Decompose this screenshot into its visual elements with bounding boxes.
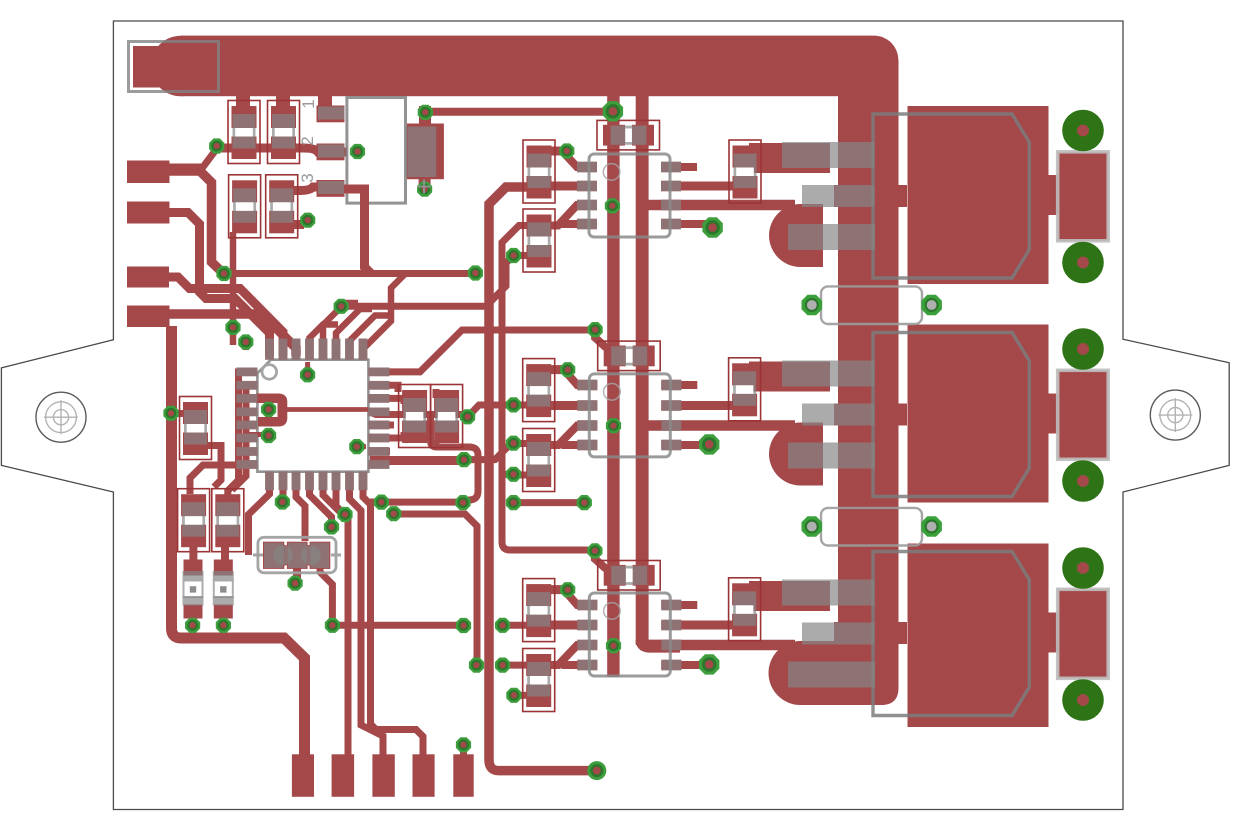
- wire pad LP3: [127, 267, 169, 288]
- relay K1 screw terminal hole bottom: [1062, 242, 1104, 284]
- wire coil feed relay2 pinA: [749, 362, 830, 392]
- capacitor C6: [431, 385, 463, 448]
- resistor R1a channel 1: [523, 140, 555, 203]
- wire via V26 to R3 bottom: [514, 252, 527, 259]
- LED D1: [183, 560, 204, 623]
- wire via V23 to via V38: [464, 444, 511, 460]
- wire vertical right bend to relay3 coil: [642, 640, 680, 646]
- wire net V25-V24: [381, 499, 463, 506]
- via V41: [577, 495, 592, 510]
- wire via V22 to via V37: [468, 405, 510, 417]
- via V-coil channel 1: [702, 217, 722, 237]
- regulator U2 pads 1-3: [317, 106, 345, 197]
- wire bar stub to C2: [276, 96, 290, 110]
- wire MCU pin R5 stub: [370, 421, 394, 428]
- via V11: [300, 367, 315, 382]
- relay K3 coil pin B overlay: [802, 623, 875, 645]
- regulator U2 tab pad: [404, 124, 444, 180]
- wire via V39 to R11 pad: [514, 472, 529, 479]
- via V17: [216, 618, 231, 633]
- power bus vertical band right: [838, 60, 899, 663]
- via V39: [506, 467, 521, 482]
- wire relay2 pinB stub: [834, 404, 907, 426]
- optocoupler U5: [589, 593, 670, 676]
- wire resonator pad3 to via V49: [320, 566, 332, 622]
- via V40: [506, 495, 521, 510]
- relay K3 terminal pad T: [1058, 589, 1109, 678]
- wire via V7 stub: [243, 336, 250, 350]
- capacitor C5: [399, 385, 431, 448]
- wire coil stadium relay1: [769, 204, 823, 267]
- wire MCU pin R2 to cap C5: [370, 385, 398, 392]
- wire LP1 to via V8: [168, 171, 224, 274]
- wire MCU pin B3 to resonator: [296, 470, 305, 541]
- via V-cap channel 2: [588, 322, 603, 337]
- wire channel 1 nets: [549, 111, 795, 225]
- wire MCU pin B8 to BP4: [363, 470, 423, 756]
- tab pad top-left (X1): [133, 46, 214, 88]
- wire MCU pin B4 to via V19: [310, 470, 332, 525]
- wire MCU pin T7 bundle: [350, 316, 389, 357]
- wire LP4 to MCU pin T3: [168, 314, 296, 356]
- via V51: [456, 737, 471, 752]
- wire MCU pin T6 bundle: [336, 309, 372, 356]
- wire V10 to V26: [341, 256, 513, 307]
- wire pad BP4: [413, 754, 435, 797]
- via V5: [417, 182, 432, 197]
- via V-left channel 2: [560, 362, 575, 377]
- wire wide vertical V+ left: [607, 96, 619, 677]
- via V-coil channel 3: [699, 654, 719, 674]
- wire MCU pin B1 down: [249, 470, 270, 555]
- wire thick GND run left-bottom to BP1: [172, 326, 305, 756]
- capacitor C4: [266, 175, 298, 238]
- wire cap C6 top stub: [433, 389, 440, 398]
- wire R5 bottom down column x489 to ring pad: [489, 187, 590, 771]
- wire LP2 to MCU pin T1: [168, 213, 270, 357]
- relay K2 coil pin C overlay: [788, 443, 875, 469]
- wire bar stub to U2 pad1: [318, 96, 332, 107]
- via V-in channel 2: [606, 418, 621, 433]
- wire V4 to V28 (cap1): [425, 108, 613, 116]
- wire coil stadium relay2: [769, 423, 823, 486]
- capacitor C8 channel 2: [598, 341, 661, 371]
- wire C4 top to U2 pad3: [271, 187, 318, 191]
- wire pad LP1: [127, 161, 170, 184]
- wire LP3 to MCU pin T2: [168, 277, 283, 356]
- resistor R3b channel 3: [523, 649, 555, 712]
- wire MCU pin B6 to BP2: [336, 470, 348, 756]
- fiducial target mounting ear 2: [1150, 390, 1200, 440]
- microcontroller U1 pin1 mark: [262, 365, 277, 380]
- via V4: [418, 105, 433, 120]
- relay K1 coil pin C overlay: [788, 224, 875, 250]
- wire via V37 to R10 pad: [514, 402, 529, 409]
- relay K2 terminal pad T: [1058, 370, 1109, 459]
- via V-left channel 3: [560, 582, 575, 597]
- resistor R8: [178, 489, 210, 552]
- wire R-A top to MCU pin L8: [190, 465, 246, 494]
- wire channel 3 nets: [549, 551, 795, 665]
- wire via V15 to R7 top pad: [171, 410, 186, 417]
- relay K2 body outline: [873, 333, 1029, 497]
- via V45: [469, 658, 484, 673]
- via V50: [456, 618, 471, 633]
- via V47: [506, 688, 521, 703]
- relay K1 terminal pad T: [1058, 152, 1109, 241]
- relay K3 copper pour: [908, 544, 1049, 728]
- via V7: [238, 334, 253, 349]
- resonator Q1: [253, 537, 341, 580]
- wire R8 bottom to LED D1: [189, 545, 197, 561]
- wire C1/C2 bottom row to U2 pad2: [217, 148, 358, 152]
- wire MCU pin B2 to via V18: [280, 470, 287, 500]
- via V-cap channel 3: [587, 543, 602, 558]
- via V53: [288, 576, 303, 591]
- via V12: [261, 402, 276, 417]
- relay K1 coil pin A overlay: [782, 142, 875, 168]
- wire via V43 to R13 pad: [503, 622, 528, 629]
- wire R9 bottom to LED D2: [221, 545, 229, 561]
- via V2: [350, 144, 365, 159]
- relay K2 copper pour: [908, 325, 1049, 503]
- wire via V51 to BP5: [460, 745, 467, 756]
- capacitor C1: [228, 101, 260, 164]
- LED D2: [213, 560, 234, 623]
- via V13: [261, 428, 276, 443]
- wire LP1 to via V1: [168, 151, 215, 167]
- wire coil feed relay3 pinA: [749, 581, 830, 611]
- via V-cap channel 1: [603, 101, 623, 121]
- optocoupler U5 pads: [577, 600, 681, 671]
- via V23: [456, 452, 471, 467]
- via V1: [209, 138, 224, 153]
- optocoupler U3 pads: [577, 162, 681, 230]
- relay K2 screw terminal hole top: [1062, 328, 1104, 370]
- via V49: [325, 618, 340, 633]
- wire coil stadium relay3 merged with band: [769, 641, 899, 705]
- svg-text:3: 3: [298, 173, 317, 182]
- wire pad LP4: [127, 306, 170, 328]
- capacitor C7 channel 1: [597, 120, 660, 149]
- wire pad BP2: [332, 754, 355, 797]
- resistor R2c channel 2: [729, 358, 761, 421]
- relay K3 screw terminal hole bottom: [1062, 679, 1104, 721]
- wire MCU pin R3 to cap C5: [370, 398, 404, 404]
- resistor R9: [212, 489, 244, 552]
- wire pad BP3: [372, 754, 394, 797]
- resistor R2b channel 2: [523, 429, 555, 492]
- jumper J2 pad 2: [921, 516, 942, 537]
- relay K3 coil pin C overlay: [788, 662, 875, 688]
- capacitor C9 channel 3: [598, 561, 661, 591]
- wire MCU pin R1 to via V29: [370, 330, 590, 372]
- wire via V47 stub: [514, 692, 528, 699]
- wire net row V8-V9: [224, 270, 471, 277]
- wire pad BP1: [292, 754, 314, 797]
- wire wide vertical V+ right: [636, 96, 649, 645]
- resistor R3a channel 3: [523, 579, 555, 642]
- via V38: [506, 436, 521, 451]
- via V3: [300, 213, 315, 228]
- relay K2 screw terminal hole bottom: [1062, 460, 1104, 502]
- wire caps to via V24: [431, 415, 479, 502]
- relay K3 screw terminal hole top: [1062, 547, 1104, 589]
- via V22: [460, 409, 475, 424]
- via V44: [495, 658, 510, 673]
- via V25: [374, 495, 389, 510]
- wire pad BP5: [453, 754, 473, 797]
- via V8: [216, 266, 231, 281]
- wire R7 bottom pad down: [208, 446, 221, 488]
- jumper J2 pad 1: [802, 516, 823, 537]
- wire C4 bottom to via V3: [290, 220, 304, 229]
- wire tab via bottom stub: [419, 178, 431, 194]
- wire MCU pin L1 down to R-B: [228, 372, 252, 496]
- resistor R1c channel 1: [729, 140, 761, 203]
- via V20: [337, 507, 352, 522]
- wire C3 bottom down to via V6: [230, 232, 237, 345]
- via V-left channel 1: [559, 143, 574, 158]
- relay K3 coil pin A overlay: [782, 580, 875, 606]
- optocoupler U4 pads: [577, 380, 681, 451]
- via V16: [185, 618, 200, 633]
- wire MCU pin R8 to via V23: [370, 456, 460, 465]
- via V43: [495, 618, 510, 633]
- relay K2 coil pin B overlay: [802, 404, 875, 426]
- wire MCU pin T5 bundle: [323, 303, 358, 356]
- wire MCU pin R7 stub: [370, 448, 390, 455]
- wire U2 pad3 trace over body: [344, 189, 372, 274]
- via V15: [163, 406, 178, 421]
- svg-text:2: 2: [298, 136, 317, 145]
- power bus bar top (thick trace): [151, 36, 899, 97]
- wire MCU pin L2 down: [232, 386, 252, 491]
- wire MCU pin B5 to via V20: [323, 470, 344, 516]
- optocoupler U4: [589, 374, 670, 457]
- fiducial target mounting ear 1: [36, 392, 86, 442]
- resistor R3c channel 3: [729, 578, 761, 641]
- relay K3 terminal stub: [1049, 613, 1059, 653]
- relay K1 copper pour: [908, 106, 1049, 284]
- jumper J1 pad 2: [921, 295, 942, 316]
- via V10: [334, 299, 349, 314]
- via V-in channel 1: [605, 198, 620, 213]
- via V-coil channel 2: [699, 434, 719, 454]
- wire cap C6 bottom stub: [433, 440, 440, 446]
- jumper J2 outline: [821, 508, 922, 546]
- relay K1 coil pin B overlay: [802, 185, 875, 207]
- wire MCU pin B7 to BP3: [350, 470, 384, 756]
- via V18: [275, 494, 290, 509]
- wire bar stub to C1: [236, 96, 250, 110]
- relay K1 terminal stub: [1049, 175, 1059, 215]
- wire stub to via V25: [370, 499, 378, 506]
- via V14: [349, 439, 364, 454]
- wire net V40-V41: [514, 499, 585, 506]
- wire R6 top down column x502 to via V30: [502, 226, 588, 551]
- relay K3 body outline: [873, 552, 1029, 716]
- wire relay3 pinB stub: [834, 622, 907, 644]
- wire relay1 pinB stub: [834, 185, 907, 207]
- jumper J1 outline: [821, 286, 922, 324]
- optocoupler U3: [589, 154, 670, 237]
- relay K2 terminal stub: [1049, 394, 1059, 434]
- relay K1 body outline: [873, 114, 1029, 278]
- via V19: [324, 519, 339, 534]
- via V-in channel 3: [606, 638, 621, 653]
- relay K1 screw terminal hole top: [1062, 110, 1104, 152]
- resistor R7: [180, 397, 212, 460]
- wire MCU pin T4 bundle: [310, 325, 339, 357]
- svg-text:1: 1: [299, 99, 318, 108]
- relay K2 coil pin A overlay: [782, 361, 875, 387]
- via V9: [468, 265, 483, 280]
- wire stub to via V39: [502, 471, 510, 478]
- microcontroller U1 body: [257, 360, 368, 472]
- wire via V21 to via V45: [394, 514, 477, 662]
- capacitor C3: [229, 175, 261, 238]
- wire net V49-V50: [332, 622, 463, 629]
- capacitor C2: [268, 101, 300, 164]
- wire pad LP2: [127, 202, 170, 224]
- wire coil feed relay1 pinA: [749, 143, 830, 173]
- microcontroller U1 internal traces: [248, 362, 368, 447]
- via V37: [506, 397, 521, 412]
- resistor R2a channel 2: [523, 359, 555, 422]
- via V24: [455, 495, 470, 510]
- regulator U2 body outline: [347, 98, 406, 204]
- wire MCU pin R6 to cap C5 bottom: [370, 432, 404, 438]
- via V52 ring pad: [587, 761, 606, 780]
- wire U2 pad3 down to net row: [344, 189, 372, 274]
- wire channel 2 nets: [549, 330, 795, 445]
- via V21: [386, 506, 401, 521]
- via V6: [225, 320, 240, 335]
- microcontroller U1 pins: [236, 339, 389, 491]
- jumper J1 pad 1: [802, 295, 823, 316]
- via V26: [506, 248, 521, 263]
- wire tab via top stub: [419, 106, 431, 124]
- origin cross U2: [417, 186, 431, 188]
- wire via V38 to R11 pad: [514, 440, 529, 447]
- wire via V44 to R14 pad: [503, 662, 528, 669]
- resistor R1b channel 1: [523, 209, 555, 272]
- wire MCU pin T8 to net row: [363, 274, 405, 356]
- wire MCU pin R4 to via V22 between caps: [370, 412, 467, 415]
- tab connector silk frame: [129, 42, 219, 92]
